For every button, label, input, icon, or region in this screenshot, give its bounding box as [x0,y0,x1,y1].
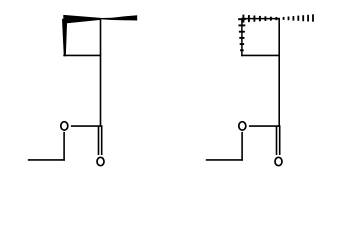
wire: ring top bond C1'-C2' base line [241,18,280,20]
wire: bond CH2-CH3 [28,159,65,161]
atom O1 (ester oxygen) [61,122,68,130]
atom O1' (ester oxygen) [239,122,246,130]
wire: ring bottom bond C3'-C4' [241,54,280,56]
wedge bond C1-methyl (bold) [100,15,137,20]
wire: bond O1'-C(=O) [249,125,281,127]
hashed wedge ticks on ring left bond [238,19,246,50]
wire: ring left bond C3'-C2' base line [241,18,243,56]
wedge bond ring top C1-C2 (bold) [63,15,100,24]
wire: C=O double bond right line [101,126,103,155]
wire: C=O double bond right line (right molecule) [279,126,281,155]
wire: C=O double bond left line [98,126,100,155]
wire: C=O double bond left line (right molecule) [276,126,278,155]
hashed wedge C1'-methyl (dashes) [284,14,313,21]
atom O2 (carbonyl oxygen) [97,157,104,165]
wire: bond CH2-CH3 (right molecule) [206,159,243,161]
wire: bond O1'-CH2 [241,132,243,161]
wire: bond O1-CH2 [63,132,65,161]
wedge bond ring left C3-C2 (bold) [62,19,67,56]
wire: ring right bond C1-C4 plus chain C1-C(=O) [100,18,102,127]
hashed wedge ticks on ring top bond [243,15,276,23]
wire: ring bottom bond C3-C4 [63,54,101,56]
wire: ring right bond C1'-C4' plus chain C1'-C(=O) [278,18,280,127]
wire: bond O1-C(=O) [71,125,103,127]
atom O2' (carbonyl oxygen) [275,157,282,165]
